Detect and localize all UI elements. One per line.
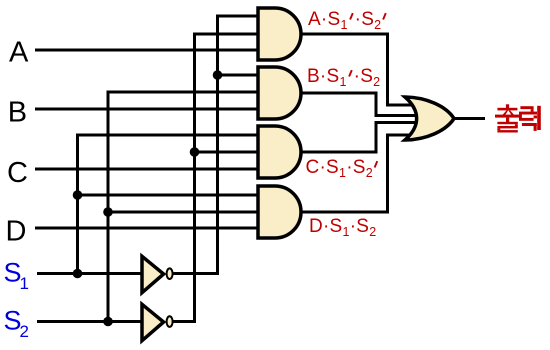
node label B bbox=[8, 96, 27, 128]
wire S2' branch to G3 bbox=[195, 151, 260, 154]
node label C bbox=[7, 157, 28, 189]
wire input A row bbox=[35, 49, 259, 52]
wire input B row bbox=[35, 108, 259, 111]
wire inverter U1 output to S1' bus bbox=[174, 16, 260, 274]
net label A·S1'·S2' bbox=[308, 9, 386, 32]
wire S1' branch to G2 bbox=[218, 74, 260, 77]
junction dot S1' bus at G2 branch bbox=[213, 70, 223, 80]
wire OR output bbox=[454, 117, 486, 120]
junction dot S2 line bbox=[103, 317, 113, 327]
svg-text:2: 2 bbox=[20, 322, 29, 341]
svg-text:1: 1 bbox=[20, 274, 29, 293]
AND gate G3 bbox=[258, 126, 301, 178]
OR gate U3 bbox=[405, 97, 454, 140]
junction dot S2' bus at G3 branch bbox=[190, 147, 200, 157]
inverter U1 (S1') bbox=[142, 256, 173, 292]
net label output (Korean 출) drawn as paths bbox=[495, 104, 520, 132]
AND gate G1 bbox=[258, 8, 301, 60]
wire G1 output to OR input 1 bbox=[301, 34, 414, 105]
svg-text:B: B bbox=[8, 96, 27, 128]
svg-text:B·S1·S2: B·S1·S2 bbox=[307, 66, 380, 89]
wire input C row bbox=[35, 168, 259, 171]
node label S2 bbox=[4, 306, 29, 342]
svg-text:D·S1·S2: D·S1·S2 bbox=[309, 216, 376, 239]
inverter U2 (S2') bbox=[142, 304, 173, 340]
junction dot S1 line bbox=[73, 269, 83, 279]
wire S1 branch to G4 bbox=[78, 194, 260, 197]
svg-text:D: D bbox=[6, 216, 27, 248]
wire input D row bbox=[35, 227, 259, 230]
svg-text:A·S1·S2: A·S1·S2 bbox=[308, 9, 381, 32]
wire input S1 row bbox=[37, 272, 142, 275]
net label C·S1·S2' bbox=[306, 157, 378, 180]
junction dot S1 bus at G4 branch bbox=[73, 190, 83, 200]
wire G3 output to OR input 3 bbox=[301, 123, 417, 153]
wire G4 output to OR input 4 bbox=[301, 135, 414, 212]
wire S1 bus vertical bbox=[78, 135, 260, 274]
AND gate G2 bbox=[258, 67, 301, 119]
net label B·S1'·S2 bbox=[307, 66, 380, 89]
net label D·S1·S2 bbox=[309, 216, 376, 239]
svg-text:C: C bbox=[7, 157, 28, 189]
svg-text:A: A bbox=[9, 36, 29, 68]
wire G2 output to OR input 2 bbox=[301, 93, 417, 116]
net label output (Korean 력) drawn as paths bbox=[519, 106, 541, 131]
junction dot S2 bus at G4 branch bbox=[103, 207, 113, 217]
svg-text:C·S1·S2: C·S1·S2 bbox=[306, 157, 373, 180]
wire S2 branch to G4 bbox=[108, 211, 259, 214]
node label D bbox=[6, 216, 27, 248]
node label S1 bbox=[4, 258, 29, 294]
node label A bbox=[9, 36, 29, 68]
wire inverter U2 output to S2' bus bbox=[174, 34, 260, 322]
wire input S2 row bbox=[37, 320, 142, 323]
wire S2 bus vertical bbox=[108, 92, 259, 322]
AND gate G4 bbox=[258, 186, 301, 238]
